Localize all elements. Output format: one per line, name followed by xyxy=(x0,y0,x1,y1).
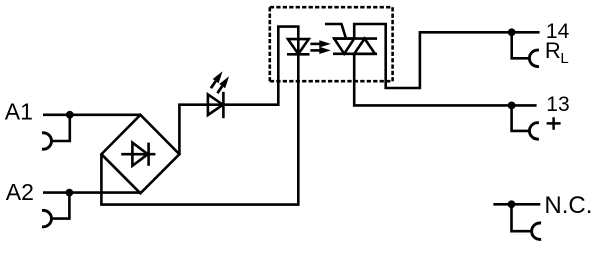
wire 14 junction to clamp xyxy=(512,32,530,58)
optocoupler light arrow 2 xyxy=(310,47,330,54)
terminal clamp N.C. xyxy=(532,223,541,239)
terminal clamp A2 xyxy=(42,210,51,226)
wire A1 junction to clamp xyxy=(51,115,70,141)
terminal clamp 13 xyxy=(529,123,538,139)
optocoupler LED xyxy=(287,39,310,54)
wire triac bottom to terminal 13 xyxy=(354,54,536,106)
terminal clamp 14 xyxy=(529,50,538,66)
phototriac Q1 xyxy=(333,39,377,54)
node terminal 13 junction xyxy=(508,102,516,110)
LED D1 indicator diode xyxy=(208,92,224,118)
terminal clamp A1 xyxy=(42,133,51,149)
LED D1 emission arrow 1 xyxy=(211,71,223,88)
wire N.C. junction to clamp xyxy=(512,204,532,231)
wire bridge plus up to LED D1 level xyxy=(179,27,298,155)
optocoupler U1 dashed package box xyxy=(270,7,393,81)
wire 13 junction to clamp xyxy=(512,105,530,130)
wire A2 junction to clamp xyxy=(51,193,69,219)
wire A1 to bridge top corner xyxy=(43,114,140,117)
wire A2 to bridge bottom corner xyxy=(43,191,141,194)
wire triac top to terminal 14 xyxy=(354,24,539,88)
svg-text:N.C.: N.C. xyxy=(544,192,592,219)
svg-text:R: R xyxy=(545,38,561,63)
node terminal 14 junction xyxy=(508,28,516,36)
svg-text:L: L xyxy=(560,50,568,67)
phototriac gate lead xyxy=(325,24,346,39)
node N.C. junction xyxy=(508,200,516,208)
wire bridge minus to optocoupler LED cathode xyxy=(101,54,298,204)
label plus xyxy=(547,117,561,130)
bridge rectifier B1 diamond xyxy=(101,115,179,194)
svg-text:A2: A2 xyxy=(6,179,34,205)
node A1 junction xyxy=(66,111,74,119)
optocoupler light arrow 1 xyxy=(310,40,330,47)
LED D1 emission arrow 2 xyxy=(217,76,229,93)
svg-text:A1: A1 xyxy=(5,99,33,125)
node A2 junction xyxy=(66,189,74,197)
bridge rectifier internal diode xyxy=(121,143,155,166)
wire N.C. stub xyxy=(493,203,540,206)
svg-text:13: 13 xyxy=(546,93,569,116)
